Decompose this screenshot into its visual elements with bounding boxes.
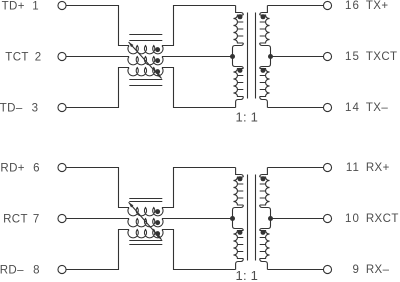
svg-text:TX–: TX– — [366, 102, 388, 114]
svg-text:RXCT: RXCT — [366, 213, 399, 225]
svg-text:RCT: RCT — [3, 214, 28, 226]
svg-text:3: 3 — [32, 103, 39, 115]
svg-text:TD–: TD– — [0, 103, 23, 115]
svg-text:TXCT: TXCT — [366, 51, 398, 63]
svg-text:15: 15 — [345, 51, 360, 63]
svg-text:RX–: RX– — [366, 264, 390, 276]
svg-text:6: 6 — [33, 163, 40, 175]
svg-text:1: 1: 1: 1 — [236, 110, 258, 125]
svg-text:10: 10 — [345, 213, 360, 225]
svg-text:1: 1: 1: 1 — [236, 268, 258, 282]
svg-text:14: 14 — [345, 102, 360, 114]
svg-text:RX+: RX+ — [366, 162, 390, 174]
svg-text:1: 1 — [32, 1, 39, 13]
svg-text:9: 9 — [353, 264, 361, 276]
svg-text:RD+: RD+ — [0, 163, 25, 175]
svg-text:TCT: TCT — [5, 52, 29, 64]
svg-text:2: 2 — [35, 52, 42, 64]
svg-text:16: 16 — [345, 0, 360, 12]
svg-text:TD+: TD+ — [2, 1, 25, 13]
svg-text:7: 7 — [33, 214, 40, 226]
svg-text:TX+: TX+ — [366, 0, 389, 12]
svg-text:8: 8 — [33, 265, 40, 277]
svg-text:11: 11 — [346, 162, 360, 174]
svg-text:RD–: RD– — [0, 265, 24, 277]
